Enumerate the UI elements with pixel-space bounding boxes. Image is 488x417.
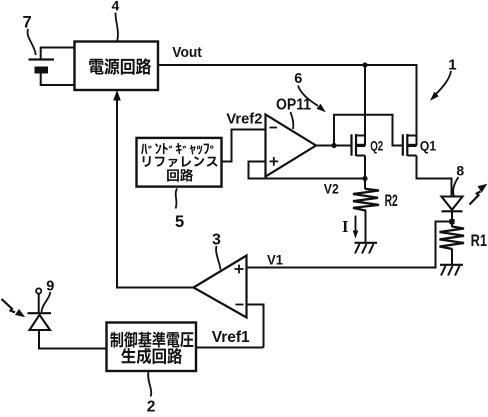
svg-text:3: 3	[212, 232, 221, 249]
svg-text:OP11: OP11	[276, 97, 311, 114]
svg-text:8: 8	[456, 162, 464, 178]
svg-text:Q2: Q2	[370, 138, 383, 153]
svg-text:V1: V1	[267, 252, 283, 268]
svg-text:R1: R1	[471, 231, 487, 250]
svg-text:Vref1: Vref1	[212, 329, 250, 346]
svg-text:2: 2	[147, 399, 156, 413]
svg-text:7: 7	[23, 13, 32, 31]
svg-text:5: 5	[175, 213, 184, 231]
svg-text:Vref2: Vref2	[226, 112, 262, 128]
svg-text:V2: V2	[324, 180, 339, 196]
svg-text:1: 1	[448, 56, 456, 73]
svg-text:R2: R2	[385, 192, 398, 210]
svg-text:I: I	[342, 217, 348, 236]
svg-text:4: 4	[112, 0, 120, 14]
svg-text:Q1: Q1	[420, 138, 437, 153]
svg-text:Vout: Vout	[172, 44, 202, 61]
svg-text:9: 9	[46, 279, 54, 295]
svg-text:6: 6	[294, 71, 302, 87]
